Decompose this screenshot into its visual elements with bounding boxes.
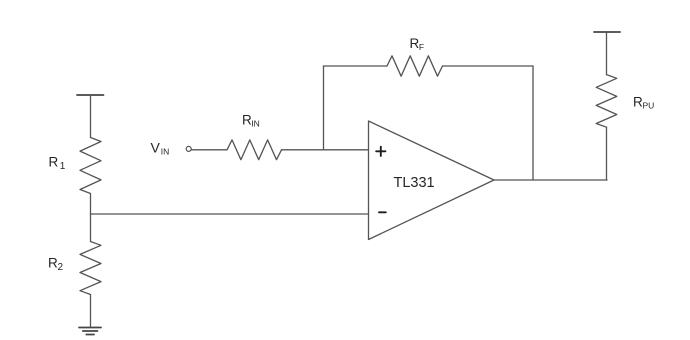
svg-text:R: R (49, 155, 59, 170)
resistor RPU (596, 75, 617, 128)
wire: feedback right leg (532, 66, 534, 180)
label RIN (242, 113, 260, 129)
power rail bar (left supply) (77, 94, 104, 96)
label RF (410, 36, 425, 52)
wire: R1 to node A (90, 194, 92, 215)
svg-text:V: V (151, 140, 161, 156)
resistor RIN (227, 140, 282, 160)
wire: RPU to output node (606, 127, 608, 180)
wire: node A to inverting input (91, 213, 369, 215)
wire: RIN to non-inverting input (282, 149, 369, 151)
wire: feedback left leg (323, 66, 325, 150)
terminal VIN (186, 146, 191, 151)
svg-text:F: F (419, 42, 424, 52)
svg-text:PU: PU (643, 100, 655, 110)
power rail bar (right pull-up supply) (594, 31, 620, 33)
wire: op-amp output (494, 179, 607, 181)
svg-text:R: R (48, 256, 58, 271)
label VIN (151, 140, 170, 157)
wire: feedback top left segment (324, 65, 388, 67)
wire: R2 to ground (90, 295, 92, 328)
label R2 (48, 256, 64, 274)
label TL331 (394, 175, 435, 191)
svg-text:R: R (633, 94, 643, 109)
resistor RF (387, 56, 443, 76)
wire: right rail to RPU (606, 32, 608, 75)
op-amp U1 TL331 (369, 121, 495, 240)
op-amp - input marker (379, 211, 386, 213)
resistor R1 (80, 138, 101, 194)
svg-text:IN: IN (251, 119, 259, 129)
label R1 (49, 155, 66, 173)
svg-text:1: 1 (60, 161, 66, 172)
wire: left rail to R1 (90, 95, 92, 138)
svg-text:IN: IN (161, 147, 170, 157)
op-amp + input marker (376, 147, 385, 156)
wire: feedback top right segment (443, 65, 534, 67)
label RPU (633, 94, 654, 110)
wire: VIN terminal to RIN (191, 149, 227, 151)
svg-text:2: 2 (58, 262, 64, 273)
resistor R2 (80, 242, 101, 295)
wire: node A to R2 (90, 214, 92, 242)
svg-text:TL331: TL331 (394, 175, 435, 191)
ground (79, 328, 101, 335)
